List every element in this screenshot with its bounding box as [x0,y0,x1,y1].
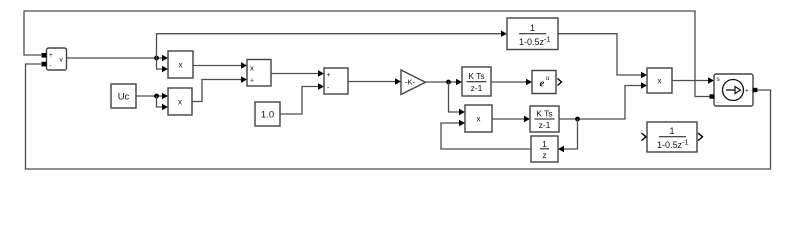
svg-text:-: - [717,100,719,107]
svg-text:x: x [477,115,481,124]
wire 1.0 output to sum S1 input 2 [280,83,324,114]
svg-text:z-1: z-1 [471,83,483,93]
discrete integrator DI1 [462,67,491,96]
wire gain output to discrete integrator DI1 [426,79,463,85]
wire X2 output to product X3 input 2 [192,76,247,101]
svg-text:K Ts: K Ts [536,109,552,119]
wire UD1 output to product X4 input 2 [441,120,531,149]
wire v up branch to discrete filter F1 [157,31,508,59]
svg-text:1-0.5z: 1-0.5z [657,140,683,150]
sum S1 [324,68,348,94]
svg-text:+: + [250,78,254,85]
svg-text:x: x [178,98,182,107]
wire DI1 output to math function e^u [491,79,532,85]
node v junction [154,56,159,61]
wire sum output to gain G1 [348,78,401,84]
svg-text:x: x [658,77,662,86]
svg-text:e: e [540,78,545,90]
gain G1 [401,70,426,95]
svg-text:1.0: 1.0 [261,110,274,121]
wire v down branch to product X1 input 2 [157,58,169,72]
wire Uc down branch to product X2 input 2 [157,96,169,110]
svg-text:1: 1 [542,139,547,149]
svg-text:-1: -1 [682,138,689,147]
wire v: VM output to product X1 input 1 [67,55,169,61]
svg-text:1: 1 [530,23,535,33]
wire DI2 output to product X5 input 2 [559,82,647,119]
discrete filter F2 (unconnected) [642,122,703,152]
node DI2 output junction [575,117,580,122]
wire Uc output to product X2 input 1 [136,93,168,99]
wire X5 output to controlled current source signal input [672,77,714,83]
product X4 [465,105,492,132]
unit delay UD1 [531,136,558,162]
controlled current source CS1 [710,74,758,107]
product X1 [168,51,193,78]
svg-text:+: + [745,88,749,95]
svg-text:-K-: -K- [405,78,416,87]
svg-text:u: u [546,74,550,82]
wire X4 output to discrete integrator DI2 [492,116,530,122]
discrete filter F1 [507,18,558,50]
svg-text:+: + [49,52,53,59]
svg-text:+: + [327,72,331,79]
svg-text:z: z [542,150,546,160]
wire top loop: VM plus port to CS minus port [24,11,710,97]
svg-text:-1: -1 [544,35,551,44]
constant Uc [111,84,136,108]
svg-text:Uc: Uc [118,92,130,103]
wire gain junction down to product X4 input 1 [449,82,466,115]
discrete integrator DI2 [530,106,559,132]
svg-text:1-0.5z: 1-0.5z [519,37,545,47]
svg-text:z-1: z-1 [539,120,551,130]
wire F1 output to product X5 input 1 [558,34,647,78]
wire X3 output to sum S1 input 1 [271,70,324,76]
wire bottom loop: CS plus port to VM minus port [26,64,771,169]
node gain output junction [446,80,451,85]
svg-text:x: x [250,64,254,73]
svg-text:1: 1 [669,126,674,136]
wire X1 output to product X3 input 1 [193,62,247,68]
svg-text:-: - [49,62,51,69]
wire DI2 junction down to unit delay UD1 input [558,119,578,152]
svg-text:x: x [179,61,183,70]
svg-text:K Ts: K Ts [468,71,484,81]
product X2 [168,88,192,115]
math function e^u [532,71,562,94]
product X5 [647,68,672,93]
product X3 [247,60,271,87]
node Uc junction [154,94,159,99]
voltage measurement U1 [42,48,67,70]
constant 1.0 [255,102,280,126]
